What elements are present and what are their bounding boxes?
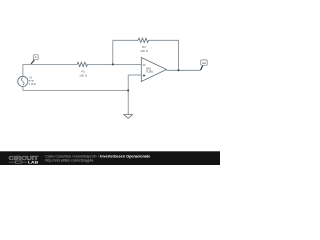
node junction at ground rail [127, 89, 129, 91]
svg-text:100 Ω: 100 Ω [140, 49, 149, 53]
svg-text:1 kHz: 1 kHz [29, 82, 37, 86]
wire output [167, 69, 201, 71]
flag IN box [33, 55, 38, 60]
wire feedback top right segment [149, 39, 179, 41]
flag OUT label [202, 61, 206, 65]
flag OUT tail [201, 66, 203, 70]
svg-text:100 Ω: 100 Ω [79, 73, 88, 77]
wire bottom ground rail [23, 90, 128, 92]
flag OUT box [201, 60, 208, 65]
wire main input right segment [87, 63, 141, 65]
node junction at output [177, 69, 179, 71]
watermark author line [45, 155, 150, 159]
voltage source V1 sine glyph [22, 78, 25, 86]
op-amp plus pin mark [143, 74, 146, 77]
watermark footer bar [0, 151, 220, 165]
CircuitLab logo LAB [28, 159, 39, 164]
flag IN label [35, 56, 38, 59]
svg-text:out: out [202, 61, 206, 65]
svg-text:TL081: TL081 [146, 70, 153, 73]
wire feedback top left segment [113, 39, 138, 41]
wire plus-input vertical [127, 75, 129, 91]
wire ground drop [127, 91, 129, 115]
wire feedback left vertical [112, 40, 114, 64]
wire source bottom lead [22, 87, 24, 91]
wire source top lead [22, 64, 24, 76]
wire feedback right vertical [178, 40, 180, 70]
ground symbol [124, 115, 133, 119]
svg-text:LAB: LAB [28, 159, 39, 164]
resistor R2 [138, 38, 148, 42]
voltage source V1 circle [18, 76, 28, 86]
CircuitLab logo word [9, 156, 39, 162]
resistor R1 [77, 62, 87, 66]
node junction at inverting input [112, 63, 114, 65]
watermark url line [45, 159, 94, 163]
CircuitLab logo resistor glyph [9, 161, 27, 163]
op-amp OA1 body [141, 58, 166, 82]
svg-text:http://circuitlab.com/c6sqg4a: http://circuitlab.com/c6sqg4a [45, 159, 94, 163]
op-amp minus pin mark [143, 64, 146, 66]
flag IN tail [31, 60, 34, 64]
wire plus-input horizontal [128, 74, 141, 76]
wire main input left segment [23, 63, 77, 65]
